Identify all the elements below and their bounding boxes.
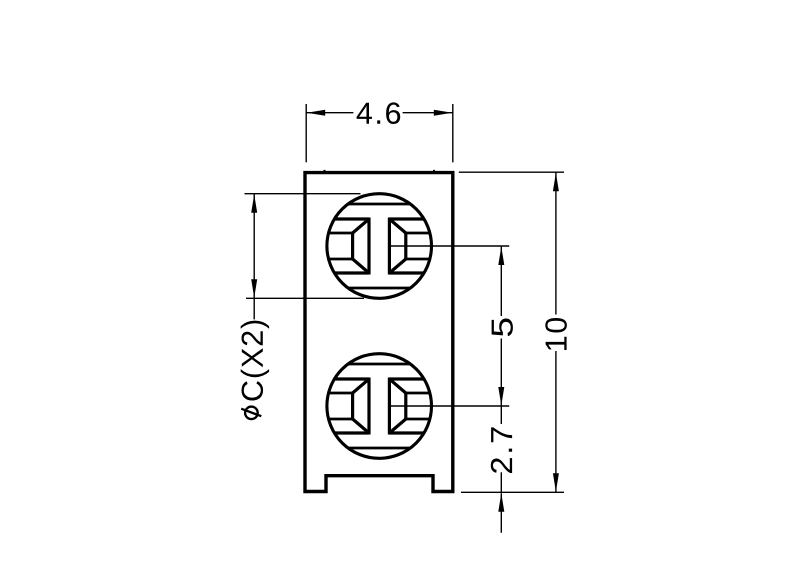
lens A cup face bottom edges [329,258,353,261]
dimension 10 arrow up [553,173,559,192]
dimension 2.7 outside arrow below [498,493,504,512]
dimension 5 line upper segment [500,246,502,316]
dimension 5 label [492,318,513,336]
dimension 2.7 label [491,427,512,473]
dimension 10 line upper segment [555,172,557,314]
dimension 5 extension line lower (lens B centerline) [391,405,509,407]
LED lens B (circle) [327,354,432,459]
dimension 5 arrow down [498,387,504,406]
dimension 5 arrow up [498,247,504,266]
lens A top chord [348,203,410,206]
lens B bottom chord [348,447,410,450]
lens B cup face verticals [351,392,354,421]
lens A cup face verticals [351,232,354,261]
dimension 4.6 line right segment [403,112,453,114]
lens A reflector top edge [334,217,369,220]
dimension 5 line lower segment [500,339,502,407]
dimension C leader tail [253,298,255,319]
dimension 10 line lower segment [555,351,557,492]
LED lens A (circle) [327,194,432,299]
lens B top chord [348,363,410,366]
dimension C arrow down [251,279,257,298]
dimension C extension line top tangent [245,193,361,195]
lens B reflector bottom edge [334,431,369,434]
lens A chip post stem [367,218,370,275]
dimension 10 arrow down [553,473,559,492]
dimension 4.6 extension line right [452,104,454,162]
dimension 10 extension line bottom [461,491,564,493]
dimension C arrow up [251,194,257,213]
dimension 5 extension line upper (lens A centerline) [391,245,509,247]
top edge tick mark right [433,170,435,173]
lens B chip post stem [367,378,370,435]
dimension 4.6 extension line left [305,104,307,162]
lens A bottom chord [348,287,410,290]
dimension C dimension line [253,194,255,299]
lens B reflector top edge [334,377,369,380]
lens B cup bevel diagonals [353,379,369,393]
lens A cup bevel diagonals [353,219,369,233]
dimension C extension line bottom tangent [246,297,364,299]
dimension C label [241,321,269,420]
dimension 4.6 arrow right [434,110,453,116]
top edge tick mark left [324,170,326,173]
lens A reflector bottom edge [334,271,369,274]
dimension 4.6 line left segment [306,112,353,114]
dimension 4.6 label [357,102,401,124]
dimension 4.6 arrow left [307,110,326,116]
lens B cup face top edges [329,392,353,395]
dimension 2.7 outside arrow tail [500,493,502,533]
dimension 2.7 line upper segment [500,406,502,424]
dimension 10 label [545,318,567,350]
lens A cup face top edges [329,232,353,235]
dimension 10 extension line top [459,171,564,173]
dimension 2.7 line lower segment [500,472,502,492]
part outline (LED holder body with mounting feet) [305,173,453,492]
lens B cup face bottom edges [329,418,353,421]
